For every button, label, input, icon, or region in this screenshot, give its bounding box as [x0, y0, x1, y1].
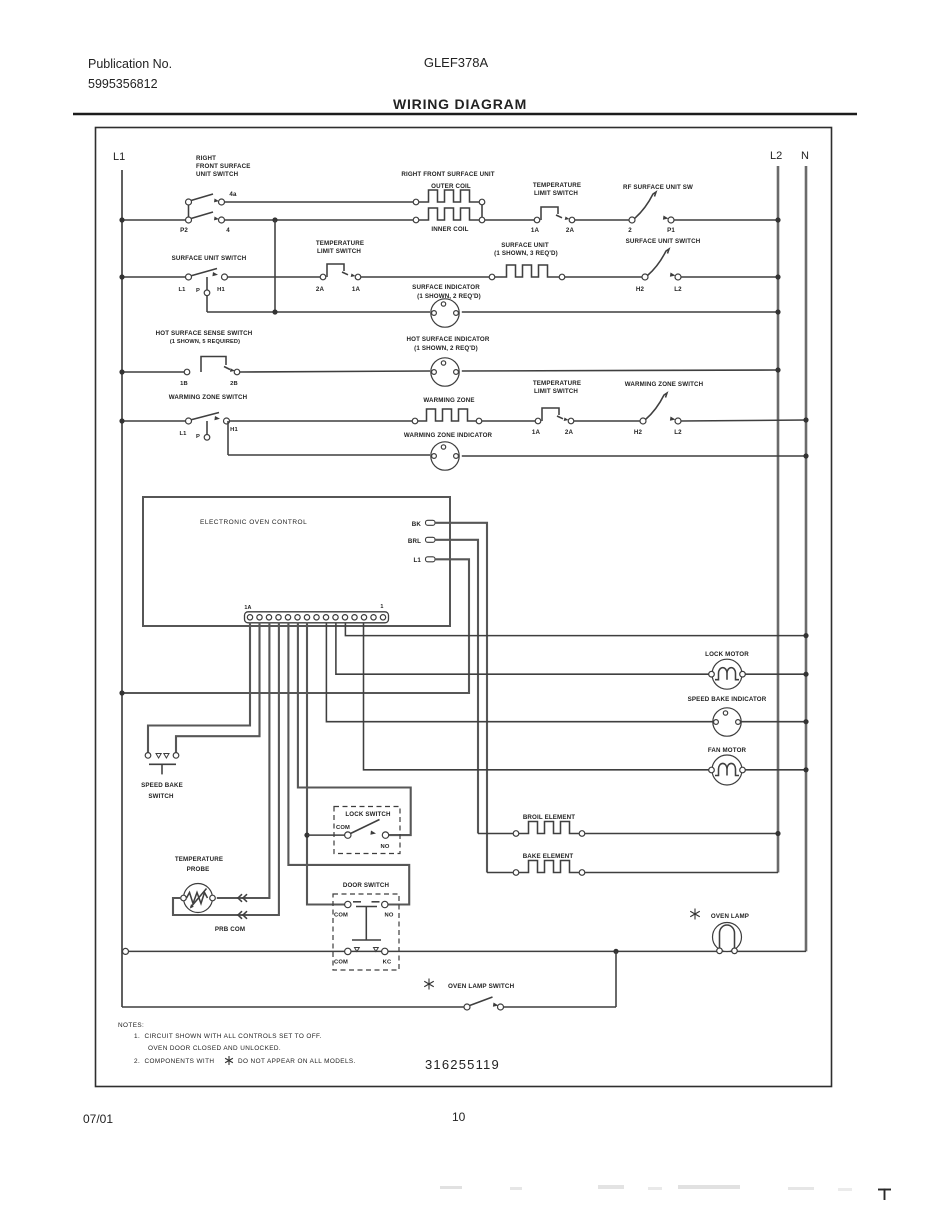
connector probe plug lower [238, 911, 247, 919]
svg-text:L1: L1 [178, 287, 186, 293]
lamp oven lamp [690, 909, 749, 954]
svg-text:5995356812: 5995356812 [88, 77, 158, 91]
svg-text:2A: 2A [565, 429, 574, 436]
wire hot surface indicator to L2 [462, 367, 781, 372]
svg-text:1A: 1A [532, 429, 541, 436]
svg-text:TEMPERATURE: TEMPERATURE [316, 240, 364, 247]
wire broil element to L2 [585, 831, 781, 836]
svg-text:TEMPERATURE: TEMPERATURE [533, 182, 581, 189]
svg-text:SURFACE UNIT SWITCH: SURFACE UNIT SWITCH [626, 238, 701, 245]
svg-text:GLEF378A: GLEF378A [424, 55, 489, 70]
wire terminal 6 to lock switch NO [298, 623, 411, 836]
lamp hot surface indicator [406, 336, 489, 386]
wire H1 drop to indicator row [227, 421, 229, 455]
wire bake feed [487, 872, 513, 874]
wire L1 connector to L1 rail [119, 559, 469, 695]
svg-text:P2: P2 [180, 227, 188, 234]
svg-text:10: 10 [452, 1110, 466, 1124]
switch hot surface sense switch [156, 330, 253, 387]
svg-text:BROIL ELEMENT: BROIL ELEMENT [523, 814, 575, 821]
svg-text:1: 1 [380, 604, 383, 610]
svg-text:H1: H1 [230, 427, 238, 433]
switch temperature limit switch row2 [316, 240, 364, 293]
wire terminal 10 to lock motor [336, 623, 809, 677]
junction row1 [272, 217, 277, 222]
switch temperature limit switch row1 [531, 182, 581, 234]
switch warming zone switch right [625, 381, 704, 436]
svg-text:OVEN LAMP SWITCH: OVEN LAMP SWITCH [448, 983, 515, 990]
svg-text:WARMING ZONE: WARMING ZONE [423, 397, 474, 404]
svg-text:KC: KC [383, 960, 392, 966]
wire to warming zone indicator [228, 454, 430, 456]
wire RF switch to inner coil [225, 219, 417, 221]
motor lock motor [705, 651, 749, 689]
wire L1 to door switch COM [123, 948, 345, 954]
wire L1 to RF switch [119, 217, 186, 222]
switch RF surface unit sw [623, 184, 693, 234]
svg-text:LIMIT SWITCH: LIMIT SWITCH [534, 388, 578, 395]
svg-text:OUTER COIL: OUTER COIL [431, 183, 471, 190]
svg-text:316255119: 316255119 [425, 1057, 500, 1072]
svg-text:SPEED BAKE INDICATOR: SPEED BAKE INDICATOR [688, 696, 767, 703]
node L1 label [113, 151, 125, 163]
svg-text:PRB COM: PRB COM [215, 926, 245, 933]
wire terminal 13 to fan motor [364, 623, 809, 773]
wire to hot surface indicator [240, 371, 430, 372]
svg-text:2A: 2A [566, 227, 575, 234]
svg-text:N: N [801, 150, 809, 162]
svg-text:RIGHT: RIGHT [196, 155, 216, 162]
svg-text:(1 SHOWN, 5 REQUIRED): (1 SHOWN, 5 REQUIRED) [170, 339, 240, 345]
svg-text:2A: 2A [316, 286, 325, 293]
svg-text:COM: COM [334, 960, 348, 966]
svg-text:NO: NO [385, 913, 394, 919]
connector probe plug upper [238, 894, 247, 902]
coil RF inner coil [413, 208, 485, 233]
wire row1 to indicator line [274, 220, 276, 312]
svg-text:2. COMPONENTS WITH: 2. COMPONENTS WITH [134, 1058, 214, 1065]
svg-text:DOOR SWITCH: DOOR SWITCH [343, 882, 390, 889]
wire to temp limit switch row2 [228, 276, 321, 278]
switch lock switch [334, 807, 400, 854]
wire to warming zone switch right [574, 420, 640, 422]
svg-text:L1: L1 [179, 431, 187, 437]
wire coil join [481, 205, 483, 217]
wire to L2 row2 [681, 274, 781, 279]
svg-text:1A: 1A [531, 227, 540, 234]
switch surface unit switch right [626, 238, 701, 293]
wire P to surface indicator [207, 309, 430, 314]
svg-text:L2: L2 [770, 150, 782, 162]
wire broil feed [478, 833, 513, 835]
svg-text:L1: L1 [413, 557, 421, 564]
svg-text:COM: COM [336, 825, 350, 831]
wire bake element to L2 [585, 872, 778, 874]
svg-text:TEMPERATURE: TEMPERATURE [533, 380, 581, 387]
wire N rail [805, 166, 808, 951]
svg-text:1B: 1B [180, 381, 188, 387]
svg-text:H1: H1 [217, 287, 225, 293]
wire terminal 7 to lock and door COM [304, 623, 344, 905]
connector L1 of control [413, 557, 435, 564]
svg-text:LIMIT SWITCH: LIMIT SWITCH [317, 248, 361, 255]
svg-text:(1 SHOWN, 2 REQ'D): (1 SHOWN, 2 REQ'D) [417, 293, 481, 300]
coil surface unit element [489, 242, 565, 280]
switch right front surface unit switch [180, 155, 250, 234]
wire terminal 11 to N [345, 623, 808, 639]
svg-text:BRL: BRL [408, 538, 421, 545]
connector BRL [408, 537, 435, 545]
svg-text:RIGHT FRONT SURFACE UNIT: RIGHT FRONT SURFACE UNIT [401, 171, 494, 178]
svg-text:4: 4 [226, 227, 230, 234]
wire to temp limit switch row1 [485, 219, 534, 221]
wire to N row5 [681, 417, 809, 422]
wire to warming zone coil [230, 420, 413, 422]
switch temperature limit switch row5 [532, 380, 581, 436]
wire terminal 4 to probe common [173, 623, 279, 916]
wire to RF surface unit sw [575, 219, 629, 221]
lamp surface indicator [412, 284, 481, 327]
svg-text:WARMING ZONE INDICATOR: WARMING ZONE INDICATOR [404, 432, 493, 439]
wire surface indicator to L2 [462, 309, 781, 314]
svg-text:OVEN DOOR CLOSED AND UNLOCKED.: OVEN DOOR CLOSED AND UNLOCKED. [148, 1045, 281, 1052]
svg-text:L2: L2 [674, 429, 682, 436]
wire RF switch to outer coil [225, 201, 417, 203]
wire terminal 5 to door switch NO [288, 623, 409, 905]
wire L1 to hot surface sense switch [119, 369, 184, 374]
wire terminal 1A to speed bake switch [148, 623, 250, 753]
motor fan motor [708, 747, 747, 785]
svg-text:BAKE ELEMENT: BAKE ELEMENT [523, 853, 574, 860]
op-amp electronic oven control box [143, 497, 450, 626]
svg-text:(1 SHOWN, 3 REQ'D): (1 SHOWN, 3 REQ'D) [494, 250, 558, 257]
svg-text:BK: BK [412, 521, 422, 528]
wire to surface unit coil [361, 276, 489, 278]
svg-text:WARMING ZONE SWITCH: WARMING ZONE SWITCH [625, 381, 704, 388]
wire L2 rail [777, 166, 780, 873]
wire warming zone indicator to N [462, 453, 809, 458]
svg-text:(1 SHOWN, 2 REQ'D): (1 SHOWN, 2 REQ'D) [414, 345, 478, 352]
svg-text:SURFACE INDICATOR: SURFACE INDICATOR [412, 284, 480, 291]
svg-text:P: P [196, 434, 200, 440]
wire L1 to warming zone switch [119, 418, 185, 423]
svg-text:FRONT SURFACE: FRONT SURFACE [196, 163, 251, 170]
svg-text:07/01: 07/01 [83, 1112, 113, 1126]
node N label [801, 150, 809, 162]
svg-text:SWITCH: SWITCH [148, 793, 174, 800]
svg-text:SURFACE UNIT SWITCH: SURFACE UNIT SWITCH [172, 255, 247, 262]
svg-text:SURFACE UNIT: SURFACE UNIT [501, 242, 549, 249]
svg-text:COM: COM [334, 913, 348, 919]
switch speed bake switch [141, 753, 183, 800]
svg-text:OVEN LAMP: OVEN LAMP [711, 913, 749, 920]
svg-text:L2: L2 [674, 286, 682, 293]
svg-text:2: 2 [628, 227, 632, 234]
svg-text:SPEED BAKE: SPEED BAKE [141, 782, 183, 789]
svg-text:P: P [196, 288, 200, 294]
svg-text:WIRING DIAGRAM: WIRING DIAGRAM [393, 96, 527, 112]
svg-text:2B: 2B [230, 381, 238, 387]
svg-text:UNIT SWITCH: UNIT SWITCH [196, 171, 239, 178]
svg-text:LIMIT SWITCH: LIMIT SWITCH [534, 190, 578, 197]
svg-text:PROBE: PROBE [187, 866, 210, 873]
svg-text:LOCK MOTOR: LOCK MOTOR [705, 651, 749, 658]
svg-text:ELECTRONIC OVEN CONTROL: ELECTRONIC OVEN CONTROL [200, 519, 307, 526]
svg-text:TEMPERATURE: TEMPERATURE [175, 856, 223, 863]
wire door switch KC to oven lamp and N [388, 949, 806, 954]
wire to surface unit switch right [565, 276, 642, 278]
coil RF outer coil [401, 171, 494, 205]
svg-text:FAN MOTOR: FAN MOTOR [708, 747, 747, 754]
switch warming zone switch left [169, 394, 248, 440]
wire to temp limit switch row5 [482, 420, 535, 422]
wire BK to bake element drop [435, 523, 487, 873]
coil warming zone element [412, 397, 482, 424]
svg-text:LOCK SWITCH: LOCK SWITCH [345, 811, 391, 818]
wire BRL to broil element drop [435, 540, 478, 834]
svg-text:INNER COIL: INNER COIL [431, 226, 468, 233]
svg-text:1A: 1A [244, 605, 251, 611]
svg-text:Publication No.: Publication No. [88, 57, 172, 71]
svg-text:RF SURFACE UNIT SW: RF SURFACE UNIT SW [623, 184, 693, 191]
svg-text:H2: H2 [634, 429, 643, 436]
wire RF sw to L2 [674, 217, 781, 222]
switch oven lamp switch [122, 951, 616, 1010]
coil bake element [513, 853, 585, 875]
svg-text:WARMING ZONE SWITCH: WARMING ZONE SWITCH [169, 394, 248, 401]
lamp speed bake indicator [688, 696, 767, 736]
svg-text:NOTES:: NOTES: [118, 1022, 144, 1029]
svg-text:DO NOT APPEAR ON ALL MODELS.: DO NOT APPEAR ON ALL MODELS. [238, 1058, 356, 1065]
svg-text:1A: 1A [352, 286, 361, 293]
resistor temperature probe [175, 856, 245, 933]
svg-text:4a: 4a [229, 191, 237, 198]
svg-text:H2: H2 [636, 286, 645, 293]
svg-text:NO: NO [381, 844, 390, 850]
wire L1 rail [121, 170, 123, 1007]
switch surface unit switch left [172, 255, 247, 312]
svg-text:L1: L1 [113, 151, 125, 163]
switch door switch [333, 882, 399, 970]
svg-text:1. CIRCUIT SHOWN WITH ALL CON: 1. CIRCUIT SHOWN WITH ALL CONTROLS SET T… [134, 1033, 322, 1040]
wire L1 to surface unit switch [119, 274, 185, 279]
svg-text:HOT SURFACE INDICATOR: HOT SURFACE INDICATOR [406, 336, 489, 343]
svg-text:P1: P1 [667, 227, 675, 234]
svg-text:HOT SURFACE SENSE SWITCH: HOT SURFACE SENSE SWITCH [156, 330, 253, 337]
wire terminal 2 to speed bake switch [176, 623, 260, 753]
wire lock switch COM feed [307, 834, 345, 836]
lamp warming zone indicator [404, 432, 493, 470]
wire terminal 3 to temperature probe [217, 623, 270, 899]
connector BK [412, 520, 435, 528]
connector terminal strip of control [244, 604, 388, 623]
wire door switch middle [351, 950, 382, 952]
coil broil element [513, 814, 585, 836]
wire terminal 9 to speed bake indicator [326, 623, 808, 725]
node L2 label [770, 150, 782, 162]
